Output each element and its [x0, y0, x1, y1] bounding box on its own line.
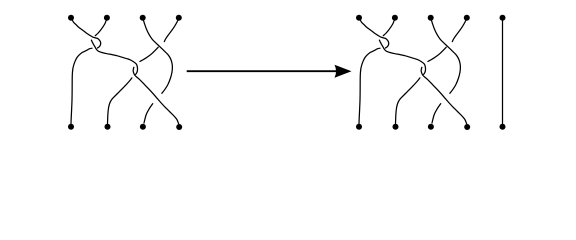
node right-braid bottom endpoint 2 [393, 124, 399, 130]
wire arrow shaft [187, 70, 337, 72]
wire right-braid trivial strand 5 (vertical) [502, 21, 504, 124]
wire right-braid strand 1 (top-left; over first crossing, under second, exits to bottom position 1) [359, 18, 389, 124]
arrowhead [335, 65, 352, 78]
node left-braid top endpoint 1 [68, 15, 74, 21]
node left-braid bottom endpoint 3 [140, 124, 146, 130]
wire right-braid strand 3 (over top-right crossing, bulges right, under bottom crossing to position 3) [431, 18, 461, 123]
node left-braid top endpoint 4 [176, 15, 182, 21]
node left-braid bottom endpoint 4 [176, 124, 182, 130]
node right-braid top endpoint 1 [356, 15, 362, 21]
node right-braid top endpoint 4 [464, 15, 470, 21]
braid stabilization diagram: left 4-strand braid, arrow, same braid with extra trivial strand [0, 0, 576, 144]
node left-braid bottom endpoint 1 [68, 124, 74, 130]
node right-braid bottom endpoint 1 [356, 124, 362, 130]
wire left-braid strand 1 (top-left; over first crossing, under second, exits to bottom position 1) [71, 18, 101, 124]
node right-braid bottom endpoint 4 [464, 124, 470, 130]
node left-braid bottom endpoint 2 [105, 124, 111, 130]
node right-braid bottom endpoint 5 [500, 124, 506, 130]
node left-braid top endpoint 2 [104, 15, 110, 21]
node right-braid top endpoint 2 [392, 15, 398, 21]
wire right-braid strand 2 (under then over in left twist, swoops to middle twist, descends to bottom position 2) [379, 18, 425, 124]
node right-braid top endpoint 5 [500, 15, 506, 21]
wire left-braid strand 4 (under top-right crossing, under middle twist then over, over bottom crossing to position 4) [133, 18, 179, 124]
node right-braid top endpoint 3 [428, 15, 434, 21]
node right-braid bottom endpoint 3 [428, 124, 434, 130]
wire left-braid strand 3 (over top-right crossing, bulges right, under bottom crossing to position 3) [143, 18, 173, 123]
wire right-braid strand 4 (under top-right crossing, under middle twist then over, over bottom crossing to position 4) [421, 18, 467, 124]
wire left-braid strand 2 (under then over in left twist, swoops to middle twist, descends to bottom position 2) [91, 18, 137, 124]
node left-braid top endpoint 3 [140, 15, 146, 21]
